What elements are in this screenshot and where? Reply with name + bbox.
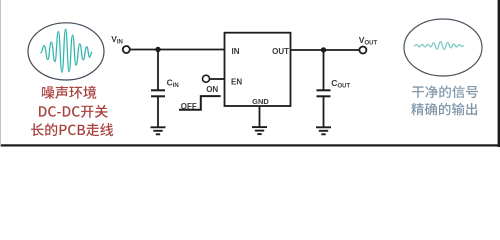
left caption line 3: 长的PCB走线 (31, 123, 113, 136)
node junction output (321, 47, 326, 52)
wire OUT pin to VOUT (291, 49, 360, 51)
terminal VIN (123, 46, 130, 53)
left noisy-environment bubble (28, 23, 104, 80)
wire output node down to COUT (323, 50, 325, 90)
wire EN terminal to EN pin (209, 78, 224, 80)
clean waveform inside right bubble (414, 42, 463, 50)
left caption line 2: DC-DC开关 (39, 105, 108, 118)
right border rule (498, 0, 500, 147)
noisy waveform inside left bubble (41, 29, 92, 72)
wire VIN to IN pin (130, 49, 225, 51)
ground under GND pin (252, 127, 267, 134)
svg-text:OUT: OUT (272, 47, 289, 56)
terminal EN (203, 75, 210, 82)
regulator U1 (LDO) box (225, 33, 291, 106)
wire CIN to ground (157, 97, 159, 127)
wire input node down to CIN (157, 50, 159, 90)
capacitor COUT (317, 89, 331, 91)
node junction input (155, 47, 160, 52)
svg-text:IN: IN (232, 47, 240, 56)
svg-text:ON: ON (206, 85, 218, 94)
ground under CIN (151, 127, 166, 134)
svg-text:GND: GND (252, 97, 269, 106)
bottom border rule (0, 144, 500, 146)
terminal VOUT (359, 47, 366, 54)
ground under COUT (316, 127, 331, 134)
left caption line 1: 噪声环境 (42, 86, 96, 99)
right clean-output bubble (404, 19, 482, 76)
capacitor CIN (151, 89, 165, 91)
svg-text:EN: EN (231, 77, 242, 86)
wire COUT to ground (323, 97, 325, 127)
svg-text:OFF: OFF (181, 102, 197, 111)
right caption line 1: 干净的信号 (412, 86, 478, 99)
wire GND pin to ground (259, 106, 261, 127)
left faint border (0, 0, 1, 147)
right caption line 2: 精确的输出 (411, 103, 477, 116)
enable step waveform OFF->ON (179, 96, 221, 110)
